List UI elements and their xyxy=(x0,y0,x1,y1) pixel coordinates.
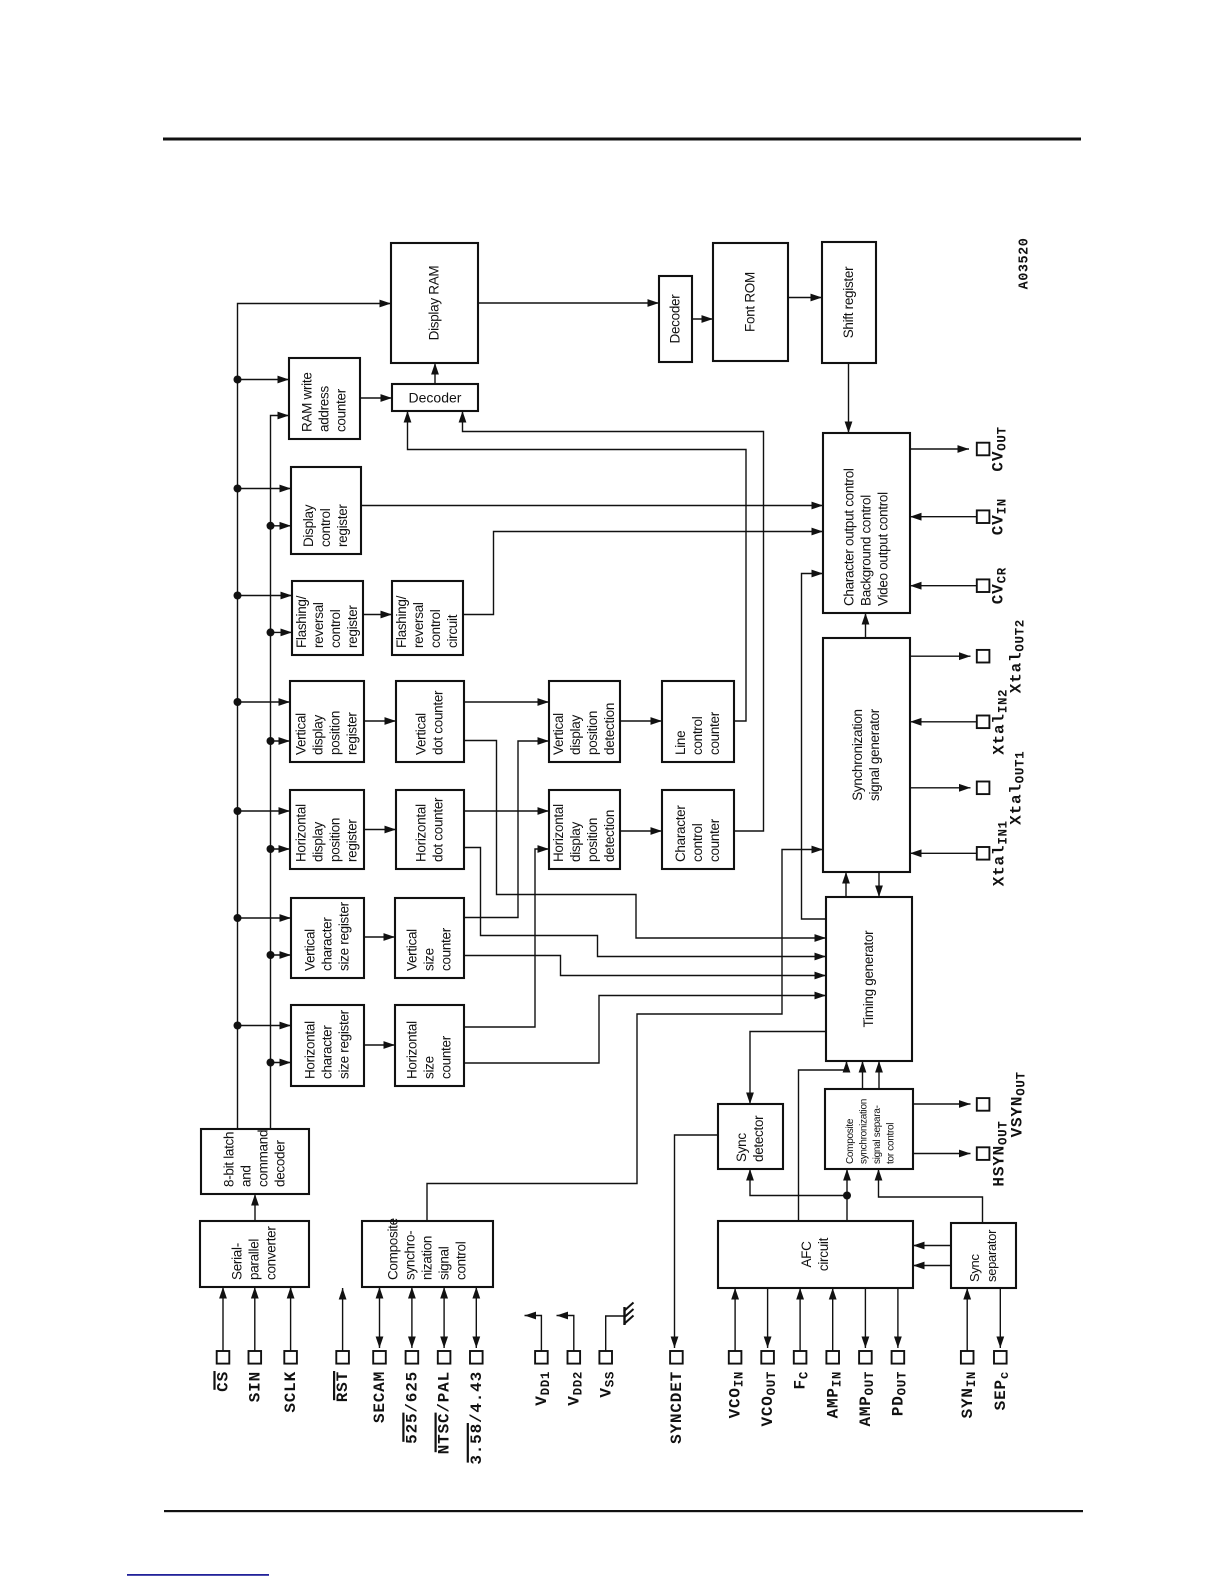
wire: Sync separator to SEPc pin xyxy=(996,1288,1004,1348)
svg-text:Vertical: Vertical xyxy=(551,713,566,755)
svg-text:counter: counter xyxy=(439,1035,454,1079)
svg-text:SYNCDET: SYNCDET xyxy=(668,1371,686,1444)
svg-text:Synchronization: Synchronization xyxy=(850,709,865,801)
pin VSYNOUT xyxy=(977,1098,990,1111)
wire: Sync detector to SYNCDET pin xyxy=(671,1135,718,1348)
wire: Composite sync separator to HSYNOUT pin xyxy=(913,1150,971,1158)
svg-text:Composite: Composite xyxy=(386,1218,401,1280)
block: RAM write address counter xyxy=(289,358,360,439)
wire: SYNIN pin to Sync separator xyxy=(963,1288,971,1351)
junction dot on trunk2 at y=525.8 xyxy=(267,522,275,530)
svg-text:Vertical: Vertical xyxy=(294,713,309,755)
wire: Display RAM to Decoder (column) xyxy=(478,299,659,307)
svg-text:command: command xyxy=(256,1130,271,1187)
svg-text:CS: CS xyxy=(215,1371,233,1392)
svg-text:tor control: tor control xyxy=(886,1123,897,1164)
wire: Vertical size counter to Timing generator (input 3) xyxy=(464,956,826,980)
wire: trunk1 branch to Flashing/reversal control register xyxy=(238,592,293,600)
svg-text:525/625: 525/625 xyxy=(404,1371,422,1444)
wire: trunk2 branch to Horizontal character size register xyxy=(271,1059,292,1067)
svg-text:register: register xyxy=(345,819,360,862)
svg-text:counter: counter xyxy=(334,388,349,432)
block: Font ROM xyxy=(713,243,788,361)
wire: trunk2 branch to Display control register xyxy=(271,522,292,530)
junction dot on trunk1 at y=811 xyxy=(234,807,242,815)
svg-text:dot counter: dot counter xyxy=(431,797,446,862)
block: Horizontal display position register xyxy=(290,790,364,869)
junction dot on trunk1 at y=595.5 xyxy=(234,592,242,600)
pin VDD1 xyxy=(533,1351,553,1406)
wire: Horizontal character size register to Horizontal size counter xyxy=(364,1041,395,1049)
block: Flashing/reversal control circuit xyxy=(392,581,463,655)
svg-text:Horizontal: Horizontal xyxy=(405,1021,420,1079)
pin FC xyxy=(792,1351,812,1390)
block: Display RAM xyxy=(391,243,478,363)
svg-text:SIN: SIN xyxy=(246,1371,264,1402)
pin AMPOUT xyxy=(857,1351,877,1427)
svg-text:Display: Display xyxy=(301,504,316,547)
svg-text:Line: Line xyxy=(673,731,688,755)
wire: Font ROM to Shift register xyxy=(788,294,822,302)
svg-text:control: control xyxy=(690,823,705,862)
wire: trunk1 branch to Horizontal character size register xyxy=(238,1022,292,1030)
wire: trunk2 branch to Vertical character size register xyxy=(271,951,292,959)
wire: Horizontal dot counter to Timing generator (input 2) xyxy=(464,848,826,961)
block: Horizontal character size register xyxy=(291,1005,364,1086)
wire: Vertical display position detection to Line control counter xyxy=(620,717,662,725)
wire: AFC circuit to Timing generator xyxy=(799,1061,851,1221)
wire: CVIN pin to Character output control xyxy=(910,513,977,521)
wire: trunk2 branch to Vertical display position register xyxy=(271,737,291,745)
wire: XtalIN2 pin to Sync signal generator xyxy=(910,718,977,726)
pin SEPc xyxy=(992,1351,1012,1410)
svg-text:synchro-: synchro- xyxy=(403,1231,418,1280)
pin XtalIN2 xyxy=(977,716,990,729)
svg-text:position: position xyxy=(585,711,600,755)
svg-text:address: address xyxy=(317,386,332,432)
svg-text:size: size xyxy=(422,948,437,971)
svg-text:3.58/4.43: 3.58/4.43 xyxy=(468,1371,486,1465)
svg-text:8-bit latch: 8-bit latch xyxy=(222,1132,237,1187)
wire: Composite sync control to Synchronization signal generator xyxy=(427,846,823,1221)
wire: Vertical size counter to Vertical display position detection xyxy=(464,737,549,917)
svg-text:register: register xyxy=(335,504,350,547)
block: Composite synchronization signal control xyxy=(362,1218,493,1287)
pin VCOIN xyxy=(727,1351,747,1418)
pin SYNIN xyxy=(959,1351,979,1418)
wire: data bus trunk 1 (8-bit latch to Display RAM) xyxy=(238,300,392,1129)
svg-text:Vertical: Vertical xyxy=(405,929,420,971)
svg-text:Background control: Background control xyxy=(859,495,874,606)
svg-text:display: display xyxy=(568,822,583,862)
wire: NTSC/PAL pin to Composite sync control (bidirectional) xyxy=(440,1287,448,1348)
wire: Timing generator to Sync detector xyxy=(746,1032,826,1105)
wire: Serial-parallel converter to 8-bit latch xyxy=(251,1194,259,1221)
svg-text:detector: detector xyxy=(751,1115,766,1162)
svg-text:Flashing/: Flashing/ xyxy=(394,595,409,648)
block: Vertical dot counter xyxy=(396,681,464,762)
footnote underline (blue) xyxy=(127,1574,269,1576)
svg-text:Composite: Composite xyxy=(845,1118,856,1164)
pin HSYNOUT xyxy=(977,1147,990,1160)
pin CS xyxy=(213,1351,232,1392)
svg-text:Character: Character xyxy=(673,805,688,862)
svg-text:signal: signal xyxy=(437,1246,452,1280)
wire: Horizontal size counter to Timing generator (input 4) xyxy=(464,992,826,1063)
block: AFC circuit xyxy=(718,1221,913,1288)
svg-text:parallel: parallel xyxy=(247,1239,262,1280)
svg-text:control: control xyxy=(318,508,333,547)
wire: Flashing/reversal control circuit to Character output control xyxy=(463,528,823,615)
junction dot AFC/sync-detector branch xyxy=(843,1192,851,1200)
svg-text:detection: detection xyxy=(602,703,617,755)
block: Shift register xyxy=(822,242,876,363)
svg-text:SCLK: SCLK xyxy=(282,1371,300,1413)
junction dot on trunk1 at y=379.5 xyxy=(234,376,242,384)
wire: Composite sync separator to Timing generator (b) xyxy=(875,1061,883,1089)
junction dot on trunk1 at y=702 xyxy=(234,698,242,706)
wire: Horizontal display position detection to Character control counter xyxy=(620,827,662,835)
wire: trunk2 branch to Flashing/reversal control register xyxy=(271,629,293,637)
wire: Character output control to CVOUT pin xyxy=(910,445,969,453)
svg-text:Horizontal: Horizontal xyxy=(414,804,429,862)
wire: AFC junction to Sync detector xyxy=(746,1169,847,1196)
svg-text:character: character xyxy=(320,1025,335,1079)
block: Flashing/reversal control register xyxy=(292,581,363,655)
wire: trunk1 branch to Horizontal display position register xyxy=(238,807,291,815)
wire: Timing generator to Synchronization signal generator xyxy=(842,872,850,897)
svg-text:NTSC/PAL: NTSC/PAL xyxy=(436,1371,454,1454)
svg-text:Display RAM: Display RAM xyxy=(427,266,442,341)
wire: Sync signal generator to XtalOUT1 pin xyxy=(910,784,971,792)
pin CVOUT xyxy=(977,443,990,456)
svg-text:size: size xyxy=(422,1056,437,1079)
power pin VDD1 arrow symbol xyxy=(525,1312,542,1351)
wire: Shift register to Character output control xyxy=(845,363,853,433)
block: Line control counter xyxy=(662,681,734,762)
wire: data bus trunk 2 (8-bit latch to RAM write address counter) xyxy=(271,412,290,1129)
wire: 525/625 pin to Composite sync control (bidirectional) xyxy=(408,1287,416,1348)
pin AMPIN xyxy=(824,1351,844,1418)
block: Vertical display position register xyxy=(290,681,364,762)
wire: AFC circuit to AMPOUT pin xyxy=(862,1288,870,1348)
block: Serial-parallel converter xyxy=(200,1221,309,1287)
ground symbol for VSS pin xyxy=(606,1303,634,1352)
svg-text:position: position xyxy=(328,818,343,862)
svg-text:circuit: circuit xyxy=(445,614,460,648)
junction dot on trunk2 at y=849 xyxy=(267,845,275,853)
wire: AMPIN pin to AFC circuit xyxy=(829,1288,837,1351)
junction dot on trunk2 at y=632.4 xyxy=(267,628,275,636)
svg-text:Vertical: Vertical xyxy=(414,713,429,755)
wire: RST pin arrow xyxy=(339,1288,347,1351)
junction dot on trunk2 at y=1062.5 xyxy=(267,1059,275,1067)
svg-text:counter: counter xyxy=(707,818,722,862)
pin RST xyxy=(333,1351,352,1402)
svg-text:control: control xyxy=(328,609,343,648)
wire: trunk2 branch to Horizontal display position register xyxy=(271,845,291,853)
wire: Sync separator to Composite sync separator xyxy=(875,1169,983,1223)
wire: Composite sync separator to Timing generator (a) xyxy=(859,1061,867,1089)
svg-text:circuit: circuit xyxy=(816,1237,831,1271)
svg-text:Vertical: Vertical xyxy=(303,929,318,971)
svg-text:Timing generator: Timing generator xyxy=(861,930,876,1028)
power pin VDD2 arrow symbol xyxy=(557,1312,574,1351)
svg-text:Horizontal: Horizontal xyxy=(551,804,566,862)
pin 525/625 xyxy=(402,1351,421,1444)
block: Decoder (RAM address decoder) xyxy=(392,384,478,411)
svg-text:Horizontal: Horizontal xyxy=(294,804,309,862)
svg-text:reversal: reversal xyxy=(311,602,326,648)
block: Character/Background/Video output control xyxy=(823,433,910,613)
svg-text:size register: size register xyxy=(337,1009,352,1079)
wire: Horizontal size counter to Horizontal display position detection xyxy=(464,845,549,1027)
block: Decoder (column decoder) xyxy=(659,276,692,362)
svg-text:display: display xyxy=(311,715,326,755)
pin SYNCDET xyxy=(668,1351,686,1444)
wire: Decoder to Display RAM xyxy=(431,363,439,384)
svg-text:detection: detection xyxy=(602,810,617,862)
pin XtalIN1 xyxy=(977,847,990,860)
pin SECAM xyxy=(371,1351,389,1423)
pin VCOOUT xyxy=(759,1351,779,1427)
svg-text:Shift register: Shift register xyxy=(841,266,856,338)
svg-text:and: and xyxy=(239,1165,254,1187)
svg-text:position: position xyxy=(328,711,343,755)
svg-text:Horizontal: Horizontal xyxy=(303,1021,318,1079)
junction dot on trunk2 at y=741 xyxy=(267,737,275,745)
wire: trunk1 branch to RAM write address counter xyxy=(238,376,290,384)
svg-text:synchronization: synchronization xyxy=(858,1099,869,1164)
wire: VCOIN pin to AFC circuit xyxy=(731,1288,739,1351)
svg-text:character: character xyxy=(320,917,335,971)
block: Horizontal size counter xyxy=(395,1005,464,1086)
svg-text:register: register xyxy=(345,605,360,648)
svg-text:SECAM: SECAM xyxy=(371,1371,389,1423)
pin XtalOUT2 xyxy=(977,650,990,663)
block: Horizontal display position detection xyxy=(549,790,620,869)
pin VDD2 xyxy=(565,1351,585,1406)
wire: Sync separator to AFC circuit (b) xyxy=(913,1262,951,1270)
svg-text:decoder: decoder xyxy=(273,1140,288,1187)
wire: Line control counter to Decoder (feedback left) xyxy=(404,411,746,721)
pin VSS xyxy=(597,1351,617,1398)
wire: AFC circuit to VCOOUT pin xyxy=(764,1288,772,1348)
svg-text:Font ROM: Font ROM xyxy=(743,272,758,332)
block: Vertical character size register xyxy=(291,898,364,978)
svg-text:dot counter: dot counter xyxy=(431,690,446,755)
top horizontal rule xyxy=(163,138,1081,141)
pin NTSC/PAL xyxy=(435,1351,454,1454)
svg-text:Flashing/: Flashing/ xyxy=(294,595,309,648)
junction dot on trunk1 at y=1025.5 xyxy=(234,1022,242,1030)
svg-text:nization: nization xyxy=(420,1236,435,1280)
svg-text:Sync: Sync xyxy=(967,1253,982,1282)
wire: CS pin to Serial-parallel converter xyxy=(219,1287,227,1351)
pin SIN xyxy=(246,1351,264,1402)
svg-text:display: display xyxy=(568,715,583,755)
wire: Flashing/reversal control register to circuit xyxy=(363,611,392,619)
wire: AFC circuit to PDOUT pin xyxy=(894,1288,902,1348)
block: Synchronization signal generator xyxy=(823,638,910,872)
wire: Vertical dot counter to Vertical display position detection xyxy=(464,698,549,706)
wire: Decoder to Font ROM xyxy=(692,315,713,323)
svg-text:converter: converter xyxy=(264,1226,279,1280)
svg-text:display: display xyxy=(311,822,326,862)
wire: Timing generator to Character output control xyxy=(802,570,827,919)
wire: XtalIN1 pin to Sync signal generator xyxy=(910,849,977,857)
wire: Horizontal display position register to Horizontal dot counter xyxy=(364,826,396,834)
pin CVCR xyxy=(977,579,990,592)
block: Display control register xyxy=(291,467,361,554)
wire: Synchronization signal generator to Character output control xyxy=(862,613,870,638)
svg-text:signal separa-: signal separa- xyxy=(872,1105,883,1164)
svg-text:counter: counter xyxy=(707,711,722,755)
junction dot on trunk1 at y=918 xyxy=(234,914,242,922)
wire: FC pin to AFC circuit xyxy=(796,1288,804,1351)
wire: Composite sync separator to VSYNOUT pin xyxy=(913,1100,971,1108)
pin XtalOUT1 xyxy=(977,782,990,795)
svg-text:position: position xyxy=(585,818,600,862)
svg-text:separator: separator xyxy=(984,1229,999,1282)
block: Character control counter xyxy=(662,790,734,869)
block: 8-bit latch and command decoder xyxy=(201,1129,309,1194)
wire: Vertical character size register to Vertical size counter xyxy=(364,933,395,941)
block: Vertical size counter xyxy=(395,898,464,978)
svg-text:Decoder: Decoder xyxy=(668,294,683,344)
wire: Vertical dot counter to Timing generator (input 1) xyxy=(464,741,826,942)
wire: 3.58/4.43 pin to Composite sync control (bidirectional) xyxy=(472,1287,480,1348)
wire: Sync separator to AFC circuit (a) xyxy=(913,1242,951,1250)
pin 3.58/4.43 xyxy=(467,1351,486,1465)
svg-text:signal generator: signal generator xyxy=(867,708,882,801)
wire: trunk1 branch to Vertical display position register xyxy=(238,698,291,706)
svg-text:control: control xyxy=(690,716,705,755)
svg-text:RST: RST xyxy=(334,1371,352,1402)
wire: Character control counter to Decoder (feedback right) xyxy=(459,411,764,831)
block: Horizontal dot counter xyxy=(396,790,464,869)
svg-text:Sync: Sync xyxy=(734,1133,749,1162)
wire: Sync signal generator to XtalOUT2 pin xyxy=(910,652,971,660)
wire: AFC circuit to Composite sync separator xyxy=(843,1169,851,1221)
block: Sync separator xyxy=(951,1223,1016,1288)
wire: RAM write address counter to Decoder xyxy=(360,394,392,402)
wire: trunk1 branch to Display control register xyxy=(238,485,292,493)
bottom horizontal rule xyxy=(164,1510,1083,1512)
svg-text:Serial-: Serial- xyxy=(230,1243,245,1280)
wire: CVCR pin to Character output control xyxy=(910,582,977,590)
svg-text:control: control xyxy=(428,609,443,648)
svg-text:Decoder: Decoder xyxy=(409,390,462,406)
wire: trunk1 branch to Vertical character size register xyxy=(238,914,292,922)
svg-text:Character output control: Character output control xyxy=(842,468,857,606)
block: Composite synchronization signal separator control xyxy=(825,1089,913,1169)
junction dot on trunk1 at y=488.5 xyxy=(234,485,242,493)
pin PDOUT xyxy=(890,1351,910,1416)
svg-text:A03520: A03520 xyxy=(1018,238,1033,290)
svg-text:Video output control: Video output control xyxy=(876,492,891,606)
wire: Horizontal dot counter to Horizontal display position detection xyxy=(464,807,549,815)
junction dot on trunk2 at y=955 xyxy=(267,951,275,959)
wire: Synchronization signal generator to Timing generator xyxy=(875,872,883,897)
svg-text:register: register xyxy=(345,712,360,755)
wire: SECAM pin to Composite sync control (bidirectional) xyxy=(376,1287,384,1348)
pin SCLK xyxy=(282,1351,300,1413)
block: Timing generator xyxy=(826,897,912,1061)
pin CVIN xyxy=(977,510,990,523)
svg-text:AFC: AFC xyxy=(799,1241,814,1268)
svg-text:reversal: reversal xyxy=(411,602,426,648)
wire: Display control register to Character output control xyxy=(361,502,823,510)
svg-text:RAM write: RAM write xyxy=(300,372,315,432)
wire: Vertical display position register to Vertical dot counter xyxy=(364,717,396,725)
svg-text:size register: size register xyxy=(337,901,352,971)
block: Vertical display position detection xyxy=(549,681,620,762)
svg-text:counter: counter xyxy=(439,927,454,971)
svg-text:control: control xyxy=(454,1241,469,1280)
wire: SCLK pin to Serial-parallel converter xyxy=(287,1287,295,1351)
wire: SIN pin to Serial-parallel converter xyxy=(251,1287,259,1351)
block: Sync detector xyxy=(718,1104,783,1169)
